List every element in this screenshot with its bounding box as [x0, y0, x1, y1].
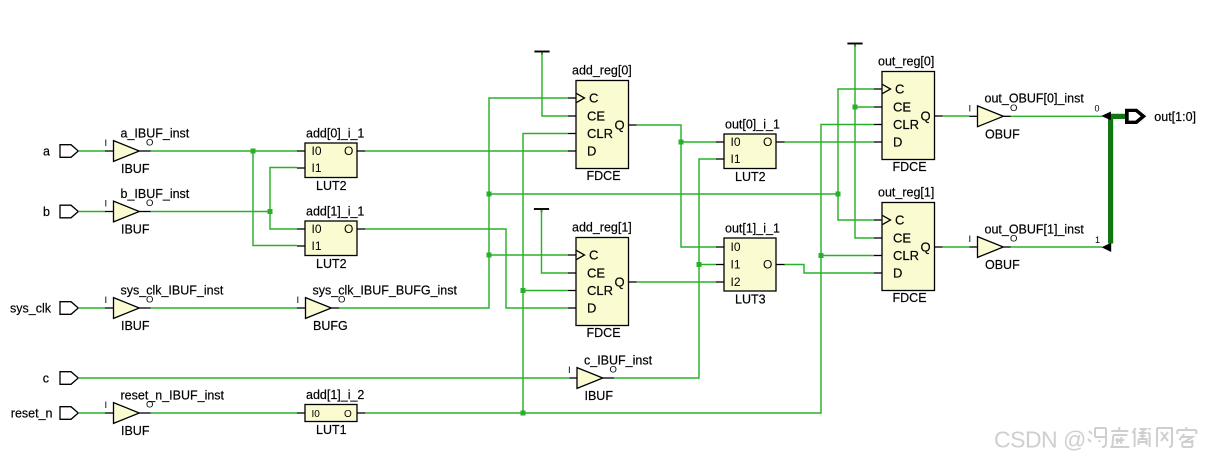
buffer out_OBUF[0]_inst: [978, 106, 1004, 127]
svg-text:BUFG: BUFG: [313, 319, 348, 333]
wire out_reg[1].Q to OBUF: [943, 246, 970, 248]
svg-text:FDCE: FDCE: [587, 169, 621, 183]
svg-text:O: O: [146, 198, 153, 209]
svg-text:add_reg[0]: add_reg[0]: [572, 64, 632, 78]
wire reset_n_IBUF to add[1]_i_2: [151, 412, 297, 414]
svg-text:CE: CE: [587, 109, 605, 124]
svg-text:CLR: CLR: [893, 117, 919, 132]
wire out_OBUF[1] to bus: [1011, 246, 1103, 248]
wire a_IBUF to add[0]_i_1.I0: [151, 150, 297, 152]
wire clock trunk: [489, 193, 838, 195]
output port out[1:0]: [1125, 109, 1146, 124]
buffer reset_n_IBUF_inst: [114, 403, 140, 424]
buffer a_IBUF_inst: [114, 141, 140, 162]
LUT2 add[1]_i_1 (add[1]_i_1): [305, 221, 357, 256]
svg-text:O: O: [146, 295, 153, 306]
svg-text:O: O: [610, 365, 617, 376]
svg-text:out_OBUF[1]_inst: out_OBUF[1]_inst: [985, 222, 1085, 236]
wire b_IBUF to add[0]_i_1.I1: [270, 168, 297, 212]
svg-text:Q: Q: [921, 109, 931, 124]
wire clock BUFG.O to add_reg[0].C: [339, 98, 568, 308]
wire b port to IBUF: [78, 211, 105, 213]
svg-text:a_IBUF_inst: a_IBUF_inst: [121, 126, 190, 140]
svg-text:LUT3: LUT3: [735, 293, 766, 307]
svg-text:O: O: [1010, 234, 1017, 245]
wire out[1]_i_1.O to out_reg[1].D: [785, 265, 875, 274]
buffer sys_clk_IBUF_BUFG_inst: [306, 298, 332, 319]
svg-text:C: C: [895, 213, 904, 228]
svg-text:D: D: [893, 266, 902, 281]
svg-text:b_IBUF_inst: b_IBUF_inst: [121, 187, 190, 201]
watermark glyph yu: [1133, 428, 1150, 447]
svg-text:I2: I2: [731, 275, 741, 289]
svg-text:1: 1: [1095, 235, 1100, 245]
svg-text:I1: I1: [312, 239, 322, 253]
junction VCC at out_reg[0].CE: [853, 105, 858, 110]
svg-text:LUT1: LUT1: [316, 423, 347, 437]
svg-text:I0: I0: [312, 222, 322, 236]
svg-text:O: O: [1010, 103, 1017, 114]
svg-text:out_reg[1]: out_reg[1]: [878, 186, 934, 200]
svg-text:c: c: [43, 371, 49, 385]
junction reset at out_reg[1].CLR: [819, 253, 824, 258]
svg-text:Q: Q: [921, 240, 931, 255]
svg-text:O: O: [146, 400, 153, 411]
svg-text:CLR: CLR: [587, 283, 613, 298]
svg-text:I: I: [568, 365, 571, 376]
svg-text:D: D: [587, 144, 596, 159]
wire VCC to out_reg[1].CE: [855, 45, 874, 239]
wire add[0]_i_1.O to add_reg[0].D: [365, 150, 568, 152]
wire add_reg[1].Q to out[1]_i_1.I2: [637, 281, 717, 283]
wire sys_clk port to IBUF: [78, 307, 105, 309]
svg-text:O: O: [763, 135, 772, 149]
svg-text:I: I: [969, 103, 972, 114]
svg-text:I0: I0: [312, 409, 321, 420]
svg-text:O: O: [344, 409, 352, 420]
svg-text:c_IBUF_inst: c_IBUF_inst: [584, 353, 653, 367]
svg-text:C: C: [589, 248, 598, 263]
buffer out_OBUF[1]_inst: [978, 237, 1004, 258]
VCC power symbol for add_reg[0] CE: [534, 51, 549, 53]
input port sys_clk: [60, 302, 78, 315]
svg-text:I: I: [969, 234, 972, 245]
wire a port to IBUF: [78, 150, 105, 152]
LUT1 add[1]_i_2 (add[1]_i_2): [305, 405, 357, 422]
buffer c_IBUF_inst: [577, 368, 603, 389]
wire add[1]_i_1.O to add_reg[1].D: [365, 229, 568, 308]
svg-text:a: a: [43, 144, 50, 158]
svg-text:Q: Q: [615, 118, 625, 133]
svg-text:add[1]_i_2: add[1]_i_2: [306, 388, 364, 402]
wire VCC to out_reg[0].CE: [855, 106, 874, 108]
VCC power symbol for out_reg CE: [847, 43, 862, 45]
svg-text:out[1]_i_1: out[1]_i_1: [725, 222, 780, 236]
wire sys_clk_IBUF to BUFG: [151, 307, 297, 309]
svg-text:I: I: [105, 295, 108, 306]
input port b: [60, 205, 78, 218]
flip-flop add_reg[1] (add_reg[1]): [576, 238, 629, 326]
svg-text:b: b: [43, 205, 50, 219]
watermark glyph ke: [1177, 427, 1196, 447]
svg-text:CE: CE: [587, 266, 605, 281]
svg-text:I0: I0: [731, 240, 741, 254]
svg-text:reset_n_IBUF_inst: reset_n_IBUF_inst: [121, 388, 225, 402]
svg-text:sys_clk_IBUF_BUFG_inst: sys_clk_IBUF_BUFG_inst: [313, 283, 458, 297]
watermark glyph xu: [1110, 427, 1129, 447]
svg-text:IBUF: IBUF: [121, 319, 150, 333]
junction c net at out[1]_i_1.I1: [697, 262, 702, 267]
svg-text:I: I: [297, 295, 300, 306]
wire add[1]_i_2.O to out_reg[0].CLR: [365, 125, 874, 414]
input port c: [60, 372, 78, 385]
junction b_IBUF net: [268, 209, 273, 214]
svg-text:out[1:0]: out[1:0]: [1154, 110, 1196, 124]
LUT2 out[0]_i_1 (out[0]_i_1): [724, 134, 776, 169]
wire reset to add_reg[0].CLR: [523, 134, 568, 414]
svg-text:I0: I0: [312, 144, 322, 158]
svg-text:0: 0: [1095, 104, 1100, 114]
wire b_IBUF from buffer: [151, 211, 270, 213]
wire b_IBUF to add[1]_i_1.I0: [270, 212, 297, 230]
wire VCC to add_reg[0].CE: [542, 53, 568, 117]
svg-text:I0: I0: [731, 135, 741, 149]
junction clock net at add_reg[1].C: [487, 253, 492, 258]
junction reset at add_reg[1].CLR: [521, 288, 526, 293]
wire add_reg[0].Q to out[0]_i_1.I0: [681, 141, 716, 143]
LUT3 out[1]_i_1 (out[1]_i_1): [724, 238, 776, 291]
junction add_reg[0].Q net: [679, 140, 684, 145]
svg-text:I1: I1: [312, 161, 322, 175]
svg-text:IBUF: IBUF: [121, 424, 150, 438]
flip-flop add_reg[0] (add_reg[0]): [576, 81, 629, 169]
bus out_OBUF[1:0] vertical trunk: [1108, 114, 1113, 244]
svg-text:Q: Q: [615, 275, 625, 290]
svg-text:sys_clk: sys_clk: [10, 301, 52, 315]
junction clock net at out_reg branch: [836, 192, 841, 197]
svg-text:CE: CE: [893, 100, 911, 115]
wire out[0]_i_1.O to out_reg[0].D: [785, 141, 875, 143]
svg-text:I: I: [105, 138, 108, 149]
svg-text:LUT2: LUT2: [735, 170, 766, 184]
wire c_IBUF to out[0]_i_1.I1: [614, 159, 716, 378]
svg-text:I: I: [105, 199, 108, 210]
bus entry arrow bit 1: [1102, 243, 1112, 252]
input port reset_n: [60, 407, 78, 420]
LUT2 add[0]_i_1 (add[0]_i_1): [305, 143, 357, 178]
input port a: [60, 145, 78, 158]
svg-text:add[0]_i_1: add[0]_i_1: [306, 127, 364, 141]
svg-text:sys_clk_IBUF_inst: sys_clk_IBUF_inst: [121, 283, 224, 297]
watermark glyph feng: [1157, 428, 1172, 447]
svg-text:CLR: CLR: [893, 248, 919, 263]
svg-text:O: O: [344, 222, 353, 236]
flip-flop out_reg[0] (out_reg[0]): [882, 72, 935, 160]
svg-text:O: O: [344, 144, 353, 158]
svg-text:add_reg[1]: add_reg[1]: [572, 221, 632, 235]
svg-text:D: D: [587, 301, 596, 316]
svg-text:O: O: [763, 257, 772, 271]
pin stubs for buffers: [105, 150, 114, 152]
svg-text:out[0]_i_1: out[0]_i_1: [725, 118, 780, 132]
svg-text:CSDN @: CSDN @: [994, 427, 1086, 453]
wire VCC to add_reg[1].CE: [542, 210, 569, 273]
flip-flop out_reg[1] (out_reg[1]): [882, 203, 935, 291]
wire reset to add_reg[1].CLR: [523, 290, 568, 292]
svg-text:IBUF: IBUF: [121, 162, 150, 176]
svg-text:I1: I1: [731, 152, 741, 166]
svg-text:IBUF: IBUF: [585, 389, 614, 403]
wire out_OBUF[0] to bus: [1011, 115, 1103, 117]
bus entry arrow bit 0: [1101, 112, 1111, 121]
wire out_reg[0].Q to OBUF: [943, 115, 970, 117]
buffer b_IBUF_inst: [114, 201, 140, 222]
svg-text:O: O: [338, 295, 345, 306]
svg-text:I1: I1: [731, 257, 741, 271]
wire a_IBUF to add[1]_i_1.I1: [253, 151, 297, 246]
svg-text:O: O: [146, 138, 153, 149]
svg-text:out_reg[0]: out_reg[0]: [878, 55, 934, 69]
svg-text:FDCE: FDCE: [893, 160, 927, 174]
wire add_reg[0].Q to out[1]_i_1.I0: [637, 125, 717, 247]
wire c net to out[1]_i_1.I1: [699, 264, 716, 266]
wire clock to out_reg[0].C: [838, 89, 874, 194]
svg-text:OBUF: OBUF: [985, 258, 1020, 272]
junction a_IBUF net: [251, 149, 256, 154]
svg-text:CE: CE: [893, 231, 911, 246]
svg-text:IBUF: IBUF: [121, 223, 150, 237]
svg-text:reset_n: reset_n: [11, 406, 53, 420]
bus segment to out port: [1108, 114, 1126, 119]
svg-text:OBUF: OBUF: [985, 127, 1020, 141]
svg-text:FDCE: FDCE: [587, 326, 621, 340]
watermark glyph feng2: [1088, 428, 1106, 447]
svg-text:I: I: [105, 400, 108, 411]
svg-text:CLR: CLR: [587, 126, 613, 141]
svg-text:FDCE: FDCE: [893, 291, 927, 305]
wire clock to add_reg[1].C: [489, 254, 568, 256]
svg-text:C: C: [895, 82, 904, 97]
wire clock to out_reg[1].C: [838, 194, 874, 220]
svg-text:add[1]_i_1: add[1]_i_1: [306, 205, 364, 219]
svg-text:C: C: [589, 91, 598, 106]
VCC power symbol for add_reg[1] CE: [534, 208, 549, 210]
buffer sys_clk_IBUF_inst: [114, 298, 140, 319]
svg-text:LUT2: LUT2: [316, 257, 347, 271]
svg-text:out_OBUF[0]_inst: out_OBUF[0]_inst: [985, 92, 1085, 106]
wire reset_n port to IBUF: [78, 412, 105, 414]
svg-text:D: D: [893, 135, 902, 150]
wire c port to c_IBUF: [78, 377, 569, 379]
svg-text:LUT2: LUT2: [316, 179, 347, 193]
junction clock net trunk: [487, 192, 492, 197]
junction reset net: [521, 411, 526, 416]
wire reset to out_reg[1].CLR: [821, 255, 874, 257]
